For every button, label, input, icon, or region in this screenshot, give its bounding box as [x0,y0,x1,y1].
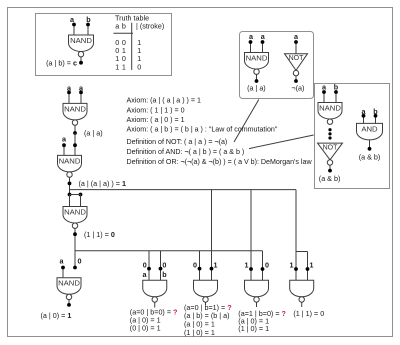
svg-text:0: 0 [265,261,269,270]
svg-text:1: 1 [290,261,294,270]
svg-text:Axiom: (a | ( a | a ) ) = 1: Axiom: (a | ( a | a ) ) = 1 [127,97,202,105]
svg-text:1: 1 [115,62,119,71]
svg-text:(1 | 1) = 0: (1 | 1) = 0 [293,309,324,318]
svg-text:¬(a): ¬(a) [291,83,304,92]
svg-text:NAND: NAND [59,156,81,165]
svg-text:AND: AND [361,124,378,133]
svg-text:b: b [122,21,126,30]
svg-text:(a | a): (a | a) [247,83,266,92]
svg-text:(1 | 0) = 1: (1 | 0) = 1 [184,328,215,337]
svg-text:0: 0 [137,62,141,71]
svg-text:0: 0 [143,261,147,270]
svg-text:0: 0 [162,261,166,270]
svg-text:(a | a): (a | a) [84,129,103,138]
svg-text:NOT: NOT [289,55,305,62]
svg-text:b: b [162,270,167,279]
svg-text:NAND: NAND [64,104,86,113]
svg-text:(a | b) = c: (a | b) = c [46,58,77,67]
svg-text:b: b [373,107,378,116]
svg-text:(0 | 0) = 1: (0 | 0) = 1 [130,324,161,333]
svg-text:a: a [115,21,119,30]
svg-text:1: 1 [310,261,314,270]
svg-text:(a | 0) = 1: (a | 0) = 1 [41,311,72,320]
svg-text:1: 1 [214,261,218,270]
svg-text:NOT: NOT [323,145,339,152]
svg-text:NAND: NAND [319,103,341,112]
svg-text:| (stroke): | (stroke) [136,21,164,30]
svg-text:Axiom: ( 1 | 1 ) = 0: Axiom: ( 1 | 1 ) = 0 [127,106,185,114]
svg-text:NAND: NAND [64,207,86,216]
svg-text:0: 0 [78,257,82,266]
svg-text:(a & b): (a & b) [319,174,341,183]
svg-text:1: 1 [122,62,126,71]
svg-text:(1 | 1) = 0: (1 | 1) = 0 [84,230,115,239]
svg-text:Definition of NOT: ( a | a ) =: Definition of NOT: ( a | a ) = ¬(a) [127,138,228,146]
svg-text:(a & b): (a & b) [359,153,381,162]
svg-text:Definition of AND: ¬( a | b ): Definition of AND: ¬( a | b ) = ( a & b … [127,148,245,156]
svg-text:1: 1 [245,261,249,270]
svg-text:Axiom: ( a | 0 ) = 1: Axiom: ( a | 0 ) = 1 [127,116,185,124]
svg-text:b: b [334,82,339,91]
svg-text:NAND: NAND [246,53,268,62]
svg-text:b: b [86,15,91,24]
svg-text:(a | (a | a) ) = 1: (a | (a | a) ) = 1 [79,179,126,188]
svg-text:NAND: NAND [70,36,92,45]
svg-text:NAND: NAND [58,279,80,288]
svg-text:Definition of OR: ¬(¬(a) & ¬(b: Definition of OR: ¬(¬(a) & ¬(b) ) = ( a … [127,158,313,166]
svg-text:Axiom: ( a | b ) = ( b | a ) :: Axiom: ( a | b ) = ( b | a ) : "Law of c… [127,126,278,134]
svg-text:(1 | 0) = 1: (1 | 0) = 1 [238,324,269,333]
svg-text:0: 0 [193,261,197,270]
